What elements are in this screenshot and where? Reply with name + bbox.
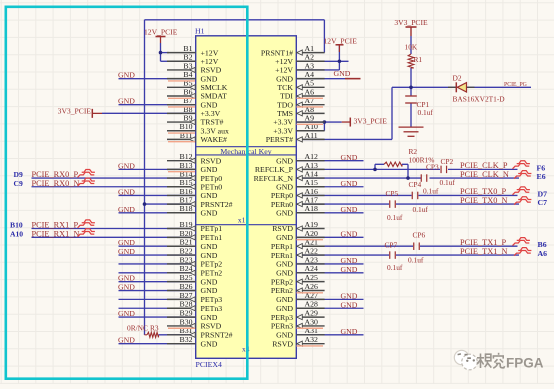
svg-text:SMCLK: SMCLK [201, 83, 228, 92]
svg-text:GND: GND [341, 256, 358, 265]
svg-text:PCIE_TX1_P: PCIE_TX1_P [460, 238, 506, 247]
svg-text:B4: B4 [183, 70, 192, 79]
svg-text:GND: GND [334, 69, 351, 78]
svg-text:GND: GND [118, 247, 135, 256]
svg-text:PERn3: PERn3 [271, 322, 293, 331]
svg-text:GND: GND [276, 295, 293, 304]
svg-text:PETp2: PETp2 [201, 260, 223, 269]
svg-text:PETn0: PETn0 [201, 182, 223, 191]
svg-text:+12V: +12V [275, 57, 293, 66]
svg-text:A1: A1 [305, 44, 315, 53]
svg-text:GND: GND [118, 97, 135, 106]
svg-text:B14: B14 [180, 169, 193, 178]
svg-text:GND: GND [201, 313, 218, 322]
svg-text:B2: B2 [183, 53, 192, 62]
svg-text:A19: A19 [305, 220, 319, 229]
svg-text:B15: B15 [180, 178, 193, 187]
svg-text:A16: A16 [305, 187, 319, 196]
svg-text:B22: B22 [180, 246, 193, 255]
svg-text:0.1uf: 0.1uf [387, 213, 403, 222]
svg-text:A4: A4 [305, 70, 315, 79]
svg-text:B17: B17 [180, 196, 193, 205]
svg-text:GND: GND [276, 233, 293, 242]
svg-text:R1: R1 [414, 55, 423, 64]
svg-text:GND: GND [341, 153, 358, 162]
svg-text:PCIE_CLK_P: PCIE_CLK_P [460, 161, 508, 170]
svg-text:B23: B23 [180, 255, 193, 264]
svg-text:0.1uf: 0.1uf [423, 187, 439, 196]
svg-text:F6: F6 [537, 163, 546, 172]
svg-text:+3.3V: +3.3V [201, 109, 221, 118]
svg-text:A5: A5 [305, 79, 315, 88]
svg-text:PERp3: PERp3 [271, 313, 293, 322]
svg-text:E6: E6 [537, 172, 546, 181]
svg-text:GND: GND [201, 339, 218, 348]
svg-text:GND: GND [276, 74, 293, 83]
svg-text:RSVD: RSVD [272, 339, 293, 348]
svg-text:A24: A24 [305, 264, 319, 273]
svg-text:GND: GND [201, 165, 218, 174]
svg-text:PRSNT2#: PRSNT2# [201, 200, 233, 209]
svg-text:0.1uf: 0.1uf [408, 256, 424, 265]
svg-text:A2: A2 [305, 53, 315, 62]
svg-text:CP2: CP2 [441, 157, 454, 166]
svg-text:GND: GND [201, 191, 218, 200]
svg-text:A30: A30 [305, 317, 319, 326]
svg-text:GND: GND [118, 187, 135, 196]
svg-text:GND: GND [201, 251, 218, 260]
svg-text:PRSNT1#: PRSNT1# [261, 48, 293, 57]
svg-text:SMDAT: SMDAT [201, 92, 228, 101]
svg-text:3V3_PCIE: 3V3_PCIE [394, 18, 428, 27]
svg-text:x1: x1 [238, 216, 246, 225]
svg-text:A25: A25 [305, 273, 319, 282]
svg-text:REFCLK_P: REFCLK_P [255, 165, 294, 174]
svg-text:A32: A32 [305, 335, 319, 344]
svg-text:GND: GND [201, 286, 218, 295]
svg-text:PETp0: PETp0 [201, 174, 223, 183]
svg-text:GND: GND [201, 242, 218, 251]
svg-text:PCIE_CLK_N: PCIE_CLK_N [460, 170, 509, 179]
svg-text:A20: A20 [305, 229, 319, 238]
svg-text:A6: A6 [305, 87, 315, 96]
svg-text:A9: A9 [305, 113, 315, 122]
svg-text:GND: GND [118, 283, 135, 292]
svg-text:GND: GND [118, 205, 135, 214]
svg-text:B20: B20 [180, 229, 193, 238]
svg-text:PCIE_RX1_P: PCIE_RX1_P [32, 221, 79, 230]
svg-text:A8: A8 [305, 105, 315, 114]
svg-text:CP5: CP5 [386, 189, 399, 198]
svg-text:RSVD: RSVD [272, 224, 293, 233]
svg-text:TMS: TMS [277, 109, 293, 118]
svg-text:GND: GND [276, 304, 293, 313]
svg-text:0.1uf: 0.1uf [413, 205, 429, 214]
svg-text:PCIE_TX1_N: PCIE_TX1_N [460, 247, 507, 256]
svg-text:GND: GND [276, 182, 293, 191]
svg-text:TDO: TDO [277, 100, 293, 109]
svg-text:GND: GND [341, 265, 358, 274]
svg-text:B32: B32 [180, 335, 193, 344]
svg-text:+12V: +12V [201, 57, 219, 66]
svg-text:PERn1: PERn1 [271, 251, 293, 260]
svg-text:B10: B10 [10, 221, 23, 230]
svg-text:PETn2: PETn2 [201, 269, 223, 278]
svg-text:GND: GND [118, 161, 135, 170]
svg-text:TDI: TDI [280, 92, 293, 101]
svg-text:TCK: TCK [277, 83, 293, 92]
svg-text:A11: A11 [305, 131, 318, 140]
svg-text:RSVD: RSVD [201, 322, 222, 331]
svg-text:BAS16XV2T1-D: BAS16XV2T1-D [453, 95, 506, 104]
svg-text:GND: GND [341, 179, 358, 188]
svg-text:PERp0: PERp0 [271, 191, 293, 200]
svg-text:PETn1: PETn1 [201, 233, 223, 242]
svg-text:B27: B27 [180, 291, 193, 300]
svg-text:B19: B19 [180, 220, 193, 229]
svg-text:R3: R3 [150, 324, 159, 333]
svg-text:PCIE_TX0_P: PCIE_TX0_P [460, 187, 506, 196]
svg-text:B13: B13 [180, 161, 193, 170]
svg-text:B1: B1 [183, 44, 192, 53]
svg-text:12V_PCIE: 12V_PCIE [324, 37, 358, 46]
svg-text:REFCLK_N: REFCLK_N [254, 174, 294, 183]
svg-text:A3: A3 [305, 61, 315, 70]
svg-text:RSVD: RSVD [201, 66, 222, 75]
svg-text:WAKE#: WAKE# [201, 135, 228, 144]
svg-text:0.1uf: 0.1uf [418, 108, 434, 117]
svg-text:A10: A10 [305, 122, 319, 131]
svg-text:+3.3V: +3.3V [273, 126, 293, 135]
svg-text:GND: GND [201, 277, 218, 286]
svg-text:GND: GND [341, 205, 358, 214]
svg-text:TRST#: TRST# [201, 118, 224, 127]
svg-text:GND: GND [118, 309, 135, 318]
svg-text:PCIE_RX1_N: PCIE_RX1_N [32, 229, 80, 238]
svg-text:PERn2: PERn2 [271, 286, 293, 295]
svg-text:0.1uf: 0.1uf [440, 178, 456, 187]
svg-text:B7: B7 [183, 96, 192, 105]
svg-text:PETp1: PETp1 [201, 224, 223, 233]
svg-text:3.3V aux: 3.3V aux [201, 126, 230, 135]
svg-text:PETn3: PETn3 [201, 304, 223, 313]
svg-text:B12: B12 [180, 152, 193, 161]
svg-text:D7: D7 [538, 189, 548, 198]
svg-text:GND: GND [201, 74, 218, 83]
svg-text:B28: B28 [180, 300, 193, 309]
svg-text:PERp1: PERp1 [271, 242, 293, 251]
svg-text:CP3: CP3 [426, 163, 439, 172]
svg-text:3V3_PCIE: 3V3_PCIE [58, 107, 92, 116]
svg-text:B30: B30 [180, 317, 193, 326]
svg-text:PERn0: PERn0 [271, 200, 293, 209]
svg-text:B8: B8 [183, 105, 192, 114]
svg-text:GND: GND [118, 336, 135, 345]
svg-text:B21: B21 [180, 238, 193, 247]
svg-text:+3.3V: +3.3V [273, 118, 293, 127]
svg-text:0.1uf: 0.1uf [387, 263, 403, 272]
svg-text:A12: A12 [305, 152, 319, 161]
svg-text:+12V: +12V [275, 66, 293, 75]
svg-text:A15: A15 [305, 178, 319, 187]
svg-text:GND: GND [276, 260, 293, 269]
svg-text:B25: B25 [180, 273, 193, 282]
svg-text:H1: H1 [195, 27, 205, 36]
svg-text:PRSNT2#: PRSNT2# [201, 331, 233, 340]
svg-text:D9: D9 [14, 170, 23, 179]
svg-text:A26: A26 [305, 282, 319, 291]
svg-text:GND: GND [276, 331, 293, 340]
svg-text:PERST#: PERST# [266, 135, 293, 144]
svg-text:PCIE_RX0_P: PCIE_RX0_P [32, 170, 79, 179]
svg-text:GND: GND [341, 300, 358, 309]
svg-text:A29: A29 [305, 309, 319, 318]
svg-text:A28: A28 [305, 300, 319, 309]
svg-text:GND: GND [341, 230, 358, 239]
svg-text:B26: B26 [180, 282, 193, 291]
svg-text:FPGA: FPGA [506, 355, 544, 370]
svg-text:GND: GND [201, 100, 218, 109]
svg-text:A18: A18 [305, 204, 319, 213]
svg-text:GND: GND [118, 238, 135, 247]
svg-text:B16: B16 [180, 187, 193, 196]
svg-text:GND: GND [341, 327, 358, 336]
svg-text:GND: GND [341, 292, 358, 301]
svg-text:RSVD: RSVD [201, 156, 222, 165]
svg-text:GND: GND [118, 274, 135, 283]
svg-text:B18: B18 [180, 204, 193, 213]
svg-text:GND: GND [276, 208, 293, 217]
svg-text:PETp3: PETp3 [201, 295, 223, 304]
svg-text:PCIE_RX0_N: PCIE_RX0_N [32, 179, 80, 188]
svg-text:CP7: CP7 [385, 241, 398, 250]
svg-text:B29: B29 [180, 309, 193, 318]
svg-text:PCIE_PG: PCIE_PG [504, 82, 527, 88]
svg-text:CP6: CP6 [413, 231, 426, 240]
svg-text:A22: A22 [305, 246, 319, 255]
svg-text:A17: A17 [305, 196, 319, 205]
svg-text:A14: A14 [305, 169, 319, 178]
svg-text:CP4: CP4 [409, 180, 422, 189]
svg-text:GND: GND [201, 208, 218, 217]
svg-text:10K: 10K [405, 43, 418, 52]
svg-text:C9: C9 [14, 179, 23, 188]
svg-text:12V_PCIE: 12V_PCIE [144, 28, 178, 37]
svg-text:GND: GND [276, 156, 293, 165]
svg-text:A7: A7 [305, 96, 315, 105]
svg-text:+12V: +12V [201, 48, 219, 57]
svg-text:A6: A6 [538, 249, 548, 258]
svg-text:GND: GND [276, 269, 293, 278]
svg-text:B24: B24 [180, 264, 193, 273]
svg-text:0R/NC: 0R/NC [127, 324, 148, 333]
svg-text:B10: B10 [180, 122, 193, 131]
svg-text:C7: C7 [538, 198, 548, 207]
svg-text:A23: A23 [305, 255, 319, 264]
svg-text:B6: B6 [538, 240, 547, 249]
svg-text:D2: D2 [453, 74, 462, 83]
svg-text:A10: A10 [10, 229, 23, 238]
svg-text:GND: GND [118, 71, 135, 80]
svg-text:3V3_PCIE: 3V3_PCIE [354, 117, 388, 126]
svg-text:PCIE_TX0_N: PCIE_TX0_N [460, 196, 507, 205]
svg-text:PERp2: PERp2 [271, 277, 293, 286]
svg-text:A13: A13 [305, 161, 319, 170]
svg-text:PCIEX4: PCIEX4 [196, 360, 223, 369]
